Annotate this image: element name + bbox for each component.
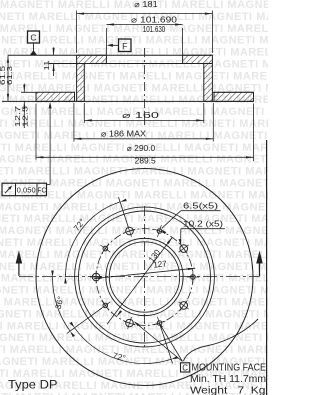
svg-text:⌀ 101.690: ⌀ 101.690	[131, 16, 178, 25]
plan: outer circle dia290	[36, 169, 253, 386]
svg-text:C: C	[182, 363, 188, 372]
plan: bore chamfer circle	[109, 242, 179, 312]
plan: small hole 6.5 at 288deg	[154, 317, 166, 329]
feature control frame runout 0.050 FC	[2, 102, 52, 196]
svg-text:MAGNETI MARELLI MAGNETI MARELL: MAGNETI MARELLI MAGNETI MARELLI MAGNETI …	[0, 35, 268, 47]
svg-text:F: F	[122, 41, 127, 51]
dim 61.5/61.3	[0, 55, 14, 101]
svg-text:MAGNETI MARELLI MAGNETI MARELL: MAGNETI MARELLI MAGNETI MARELLI MAGNETI …	[0, 261, 268, 273]
dim 127	[94, 259, 195, 279]
svg-text:MAGNETI MARELLI MAGNETI MARELL: MAGNETI MARELLI MAGNETI MARELLI MAGNETI …	[0, 70, 268, 82]
angle dim 72 lower	[70, 322, 178, 364]
section arrow right	[256, 251, 263, 277]
svg-text:MAGNETI MARELLI MAGNETI MARELL: MAGNETI MARELLI MAGNETI MARELLI MAGNETI …	[0, 225, 268, 237]
leader S-curve	[184, 319, 259, 361]
plan: small hole 6.5 at 0deg	[187, 271, 199, 283]
svg-text:Weight 7 Kg: Weight 7 Kg	[190, 386, 266, 395]
plan: large hole 10.2 at 324deg	[179, 300, 189, 310]
svg-text:MAGNETI MARELLI MAGNETI MARELL: MAGNETI MARELLI MAGNETI MARELLI MAGNETI …	[0, 47, 268, 59]
datum C	[28, 31, 40, 55]
svg-text:MAGNETI MARELLI MAGNETI MARELL: MAGNETI MARELLI MAGNETI MARELLI MAGNETI …	[0, 249, 268, 261]
dim dia181	[77, 0, 213, 53]
svg-text:101.630: 101.630	[143, 25, 166, 34]
band top left ext	[21, 91, 36, 93]
leader mounting face to holes	[134, 321, 183, 361]
band top right	[212, 91, 253, 93]
angle dim 72 upper-left	[64, 199, 127, 284]
plan: bolt PCD centerline circle	[96, 229, 193, 326]
svg-text:⌀ 181: ⌀ 181	[134, 0, 158, 9]
mounting face line	[8, 54, 212, 56]
section: right braking band hatched	[214, 92, 254, 101]
plan: large hole 10.2 at 252deg	[124, 317, 136, 329]
svg-text:MAGNETI MARELLI MAGNETI MARELL: MAGNETI MARELLI MAGNETI MARELLI MAGNETI …	[0, 166, 268, 178]
dim 11	[44, 47, 55, 76]
section centerline	[144, 48, 146, 128]
svg-text:61.3: 61.3	[7, 66, 14, 85]
svg-text:10.2 (x5): 10.2 (x5)	[183, 220, 223, 229]
radial ext line 216deg hole	[67, 308, 102, 334]
plan: hat dia181 circle	[79, 211, 211, 343]
section: left hat flange+wall hatched	[77, 55, 107, 101]
drawing frame right border	[266, 140, 268, 395]
dim dia186 MAX	[74, 103, 213, 142]
dim dia290.0/289.5	[36, 104, 254, 166]
svg-text:61.5: 61.5	[0, 66, 7, 85]
radial ext line 288deg hole	[161, 327, 173, 364]
svg-text:MAGNETI MARELLI MAGNETI MARELL: MAGNETI MARELLI MAGNETI MARELLI MAGNETI …	[0, 59, 268, 71]
svg-text:Type DP: Type DP	[8, 380, 58, 392]
svg-text:⌀ 290.0: ⌀ 290.0	[127, 144, 156, 153]
svg-text:FC: FC	[38, 185, 47, 194]
plan vertical centerline	[144, 206, 146, 348]
svg-text:Min. TH 11.7mm: Min. TH 11.7mm	[190, 374, 266, 385]
svg-text:0.050: 0.050	[17, 185, 36, 194]
dim dia160	[84, 103, 204, 123]
plan: small hole 6.5 at 72deg	[154, 225, 166, 237]
svg-text:6.5(x5): 6.5(x5)	[183, 202, 218, 211]
dim 130	[107, 237, 172, 324]
svg-text:289.5: 289.5	[135, 157, 156, 166]
svg-text:12.5: 12.5	[23, 106, 30, 127]
angle dim 36 lower-left	[51, 271, 75, 338]
svg-text:C: C	[30, 33, 36, 43]
svg-text:⌀ 160: ⌀ 160	[122, 111, 160, 120]
radial ext line 108deg hole	[119, 197, 129, 227]
svg-text:MOUNTING FACE: MOUNTING FACE	[192, 363, 267, 374]
band bottom line full	[2, 100, 254, 102]
svg-text:12.7: 12.7	[15, 106, 22, 127]
leader 10.2 (x5)	[179, 220, 225, 245]
datum F	[107, 39, 131, 52]
dim dia101.690/101.630	[106, 16, 182, 56]
dim 12.7/12.5	[15, 84, 29, 129]
plan: bore dia101.7 circle	[106, 238, 183, 315]
section: right hat flange+wall hatched	[183, 55, 213, 101]
plan: large hole 10.2 at 108deg	[124, 225, 136, 237]
svg-text:MAGNETI MARELLI MAGNETI MARELL: MAGNETI MARELLI MAGNETI MARELLI MAGNETI …	[0, 320, 268, 332]
plan: small hole 6.5 at 144deg	[100, 244, 110, 254]
plan: large hole 10.2 at 180deg	[90, 271, 102, 283]
svg-text:MAGNETI MARELLI MAGNETI MARELL: MAGNETI MARELLI MAGNETI MARELLI MAGNETI …	[0, 285, 268, 297]
section: left braking band hatched	[36, 92, 75, 101]
section arrow left	[16, 251, 23, 276]
svg-text:MAGNETI MARELLI MAGNETI MARELL: MAGNETI MARELLI MAGNETI MARELLI MAGNETI …	[0, 213, 268, 225]
svg-text:11: 11	[44, 60, 51, 70]
flange bottom line	[49, 63, 213, 65]
section cutting plane line	[19, 275, 260, 277]
plan: dia186 circle	[75, 207, 215, 347]
leader 6.5 (x5)	[161, 202, 220, 234]
svg-text:⌀ 186 MAX: ⌀ 186 MAX	[101, 129, 147, 138]
plan: small hole 6.5 at 216deg	[100, 300, 110, 310]
plan: large hole 10.2 at 36deg	[179, 244, 189, 254]
label boxed C MOUNTING FACE	[181, 363, 267, 374]
